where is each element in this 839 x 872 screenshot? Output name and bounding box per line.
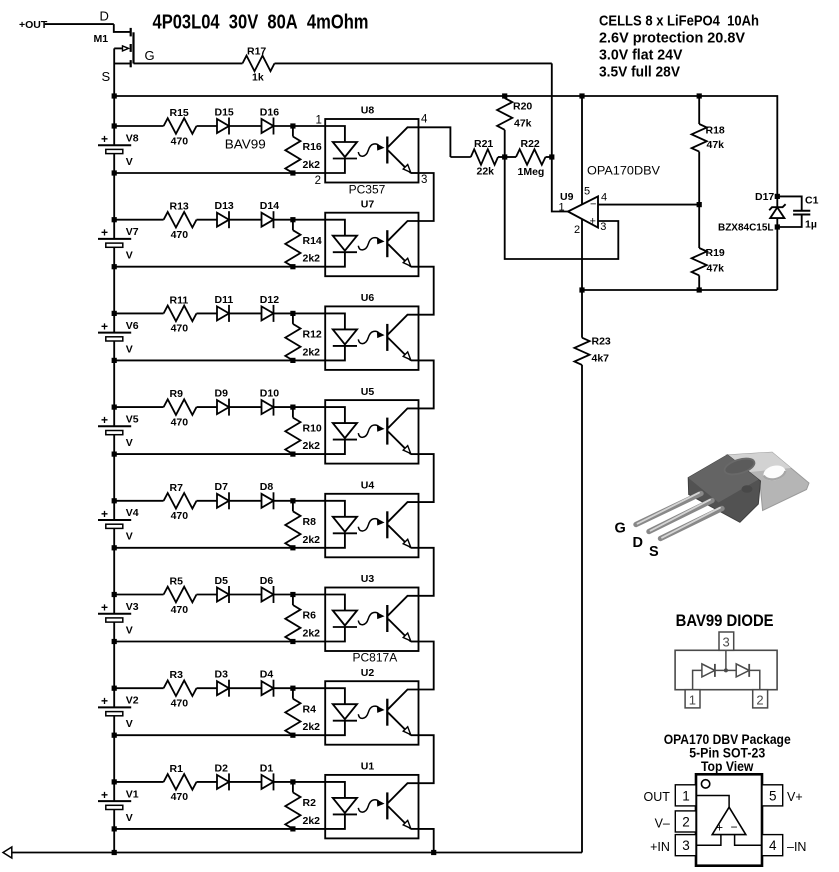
battery V1 — [98, 782, 139, 829]
resistor R6 2k2 — [285, 595, 320, 642]
svg-text:OUT: OUT — [644, 790, 671, 804]
diode D11 — [215, 294, 262, 322]
wire reference node — [582, 289, 777, 291]
junction R4 top — [290, 686, 295, 691]
svg-text:D3: D3 — [215, 669, 229, 681]
capacitor C1 1u — [777, 194, 818, 230]
svg-text:2k2: 2k2 — [303, 346, 321, 358]
svg-text:V: V — [126, 437, 133, 449]
wire M1 source to battery stack — [113, 64, 115, 127]
svg-text:D17: D17 — [755, 191, 774, 203]
svg-text:+: + — [101, 601, 108, 615]
svg-text:R22: R22 — [521, 138, 540, 150]
svg-text:−: − — [731, 820, 738, 834]
svg-text:OPA170DBV: OPA170DBV — [587, 163, 660, 177]
wire gate to U9 output node — [551, 63, 553, 157]
pin 1 OUT — [644, 785, 696, 806]
optocoupler U5 — [325, 386, 418, 464]
svg-text:D12: D12 — [260, 294, 279, 306]
resistor R11 470 — [114, 294, 217, 334]
optocoupler U7 — [325, 198, 418, 276]
battery V3 — [98, 595, 139, 642]
svg-text:+OUT: +OUT — [19, 19, 48, 31]
resistor R16 2k2 — [285, 126, 322, 173]
svg-text:R15: R15 — [170, 107, 189, 119]
battery V4 — [98, 501, 139, 548]
svg-text:R12: R12 — [303, 329, 322, 341]
svg-text:2: 2 — [315, 175, 321, 187]
diode D16 — [260, 106, 279, 134]
wire U8 collector to R21 — [419, 127, 451, 157]
svg-text:V2: V2 — [126, 695, 139, 707]
optocoupler U2 — [325, 667, 418, 745]
junction V1 + — [112, 779, 117, 784]
resistor R9 470 — [114, 388, 217, 428]
svg-text:+: + — [101, 788, 108, 802]
wire to U8 anode — [274, 125, 326, 127]
svg-text:U6: U6 — [361, 292, 375, 304]
wire V6 bottom — [114, 359, 325, 361]
svg-text:U2: U2 — [361, 667, 375, 679]
svg-text:D4: D4 — [260, 669, 274, 681]
resistor R13 470 — [114, 201, 217, 241]
op-amp package OPA170 body — [696, 774, 762, 865]
battery V6 — [98, 313, 139, 360]
resistor R23 4k7 — [574, 290, 611, 853]
svg-text:R10: R10 — [303, 422, 322, 434]
battery V2 — [98, 688, 139, 735]
svg-text:D10: D10 — [260, 388, 279, 400]
wire V+ rail — [114, 96, 777, 196]
pin 5 V+ — [762, 785, 803, 806]
svg-text:BAV99 DIODE: BAV99 DIODE — [676, 612, 774, 630]
svg-text:D14: D14 — [260, 200, 279, 212]
wire U9 pin2 V- — [581, 219, 583, 290]
svg-text:4: 4 — [769, 838, 777, 853]
svg-text:470: 470 — [171, 135, 189, 147]
junction V5 + — [112, 405, 117, 410]
svg-text:R1: R1 — [170, 763, 184, 775]
diode D15 — [215, 106, 262, 134]
svg-text:−: − — [590, 199, 596, 211]
svg-text:V: V — [126, 718, 133, 730]
svg-text:V1: V1 — [126, 788, 139, 800]
svg-text:C1: C1 — [805, 194, 819, 206]
resistor R4 2k2 — [285, 688, 320, 735]
svg-text:5: 5 — [769, 788, 777, 803]
junction pin2 R23 — [579, 287, 584, 292]
pin 1 BAV99 — [685, 690, 700, 708]
svg-text:R9: R9 — [170, 388, 184, 400]
junction pin5 rail — [579, 93, 584, 98]
wire battery stack — [113, 735, 115, 782]
resistor R1 470 — [114, 763, 217, 803]
svg-text:U4: U4 — [361, 480, 375, 492]
svg-text:2.6V protection 20.8V: 2.6V protection 20.8V — [599, 29, 745, 46]
diode D5 — [215, 575, 262, 603]
svg-text:+IN: +IN — [650, 840, 670, 854]
battery V8 — [98, 126, 139, 173]
svg-text:PC357: PC357 — [349, 182, 386, 196]
wire V8 bottom — [114, 172, 325, 174]
junction R10 top — [290, 405, 295, 410]
svg-text:R5: R5 — [170, 576, 184, 588]
svg-text:+: + — [101, 319, 108, 333]
wire U5 emitter to U4 collector — [419, 454, 434, 502]
svg-text:R4: R4 — [303, 703, 317, 715]
svg-text:V: V — [126, 624, 133, 636]
svg-text:R3: R3 — [170, 669, 184, 681]
svg-text:1µ: 1µ — [805, 218, 817, 230]
diode D9 — [215, 388, 262, 416]
wire V7 bottom — [114, 266, 325, 268]
svg-text:–IN: –IN — [787, 840, 806, 854]
svg-text:BAV99: BAV99 — [225, 137, 266, 151]
pin 2 V- — [655, 811, 696, 832]
junction V7 + — [112, 217, 117, 222]
junction R22 gate node — [549, 154, 554, 159]
junction V1 - — [112, 826, 117, 831]
diode D12 — [260, 294, 279, 322]
diode D3 — [215, 669, 262, 697]
svg-text:V–: V– — [655, 816, 670, 830]
svg-text:47k: 47k — [707, 139, 725, 151]
resistor R21 22k — [450, 138, 504, 178]
wire to U3 anode — [274, 594, 326, 596]
resistor R15 470 — [114, 107, 217, 147]
junction R18 R19 -IN node — [697, 202, 702, 207]
svg-text:R21: R21 — [474, 138, 493, 150]
svg-text:2: 2 — [574, 224, 580, 236]
svg-text:D: D — [633, 535, 643, 551]
resistor R17 — [134, 46, 552, 84]
junction D17 top — [775, 194, 780, 199]
svg-text:3: 3 — [682, 838, 690, 853]
svg-text:G: G — [615, 521, 626, 537]
wire V5 bottom — [114, 453, 325, 455]
svg-text:4k7: 4k7 — [592, 352, 610, 364]
resistor R20 47k — [497, 96, 532, 157]
svg-text:470: 470 — [171, 604, 189, 616]
svg-text:D13: D13 — [215, 200, 234, 212]
junction V4 - — [112, 545, 117, 550]
optocoupler U4 — [325, 480, 418, 558]
wire battery stack — [113, 267, 115, 314]
wire V2 bottom — [114, 734, 325, 736]
junction R12 bottom — [290, 358, 295, 363]
svg-text:D7: D7 — [215, 481, 229, 493]
wire U9 pin4 -IN — [598, 204, 699, 206]
zener D17 BZX84C15L — [718, 191, 786, 290]
resistor R19 47k — [692, 205, 725, 290]
diode D7 — [215, 481, 262, 509]
svg-text:+: + — [101, 226, 108, 240]
svg-text:470: 470 — [171, 229, 189, 241]
svg-text:D2: D2 — [215, 762, 229, 774]
svg-text:2k2: 2k2 — [303, 815, 321, 827]
svg-text:1k: 1k — [252, 71, 264, 83]
svg-text:D6: D6 — [260, 575, 274, 587]
junction V2 - — [112, 733, 117, 738]
junction R16 top — [290, 123, 295, 128]
junction R2 top — [290, 779, 295, 784]
svg-text:R20: R20 — [513, 100, 532, 112]
label cells info — [599, 12, 759, 80]
svg-text:V: V — [126, 250, 133, 262]
wire battery stack — [113, 642, 115, 689]
wire U8 emitter to U7 collector — [419, 173, 434, 221]
svg-text:M1: M1 — [94, 33, 109, 45]
junction V4 + — [112, 498, 117, 503]
svg-text:470: 470 — [171, 698, 189, 710]
svg-text:V: V — [126, 812, 133, 824]
junction V2 + — [112, 686, 117, 691]
svg-text:R13: R13 — [170, 201, 189, 213]
junction chain to 0V — [431, 850, 436, 855]
svg-text:V+: V+ — [787, 790, 803, 804]
label OPA170 package title — [664, 732, 791, 774]
svg-text:2k2: 2k2 — [303, 721, 321, 733]
wire -IN to op-amp — [735, 835, 762, 846]
svg-text:R23: R23 — [592, 335, 611, 347]
svg-text:3: 3 — [600, 221, 606, 233]
resistor R3 470 — [114, 669, 217, 709]
junction R8 bottom — [290, 545, 295, 550]
svg-text:V: V — [126, 156, 133, 168]
svg-text:R11: R11 — [170, 294, 189, 306]
svg-text:2: 2 — [756, 692, 763, 707]
svg-text:D9: D9 — [215, 388, 229, 400]
wire 0V rail — [12, 852, 583, 854]
svg-text:U1: U1 — [361, 761, 375, 773]
svg-text:D1: D1 — [260, 762, 274, 774]
svg-text:+: + — [101, 694, 108, 708]
wire U2 emitter to U1 collector — [419, 735, 434, 783]
svg-text:1: 1 — [689, 692, 696, 707]
svg-text:D: D — [100, 9, 109, 24]
junction R6 top — [290, 592, 295, 597]
battery V7 — [98, 220, 139, 267]
svg-text:3: 3 — [723, 635, 730, 650]
pin 3 +IN — [650, 835, 696, 856]
svg-text:V8: V8 — [126, 132, 139, 144]
wire to U5 anode — [274, 406, 326, 408]
diode D2 — [215, 762, 262, 790]
svg-text:V3: V3 — [126, 601, 139, 613]
resistor R10 2k2 — [285, 407, 322, 454]
wire to U4 anode — [274, 500, 326, 502]
svg-text:2k2: 2k2 — [303, 628, 321, 640]
junction R2 bottom — [290, 826, 295, 831]
junction S rail — [112, 93, 117, 98]
optocoupler U1 — [325, 761, 418, 839]
diode BAV99 internal A — [693, 664, 726, 690]
wire U9 pin3 +IN feedback — [505, 157, 619, 259]
svg-text:U8: U8 — [361, 105, 375, 117]
junction R18 rail — [697, 93, 702, 98]
junction R20 R21 R22 node — [502, 154, 507, 159]
wire U9 pin5 V+ — [581, 96, 583, 205]
svg-text:1: 1 — [316, 115, 322, 127]
svg-text:2k2: 2k2 — [303, 440, 321, 452]
wire U3 emitter to U2 collector — [419, 642, 434, 690]
diode D6 — [260, 575, 274, 603]
svg-text:D16: D16 — [260, 106, 279, 118]
svg-text:V: V — [126, 531, 133, 543]
wire to U7 anode — [274, 219, 326, 221]
wire to U1 anode — [274, 781, 326, 783]
junction V3 + — [112, 592, 117, 597]
svg-text:47k: 47k — [514, 117, 532, 129]
svg-text:U7: U7 — [361, 198, 375, 210]
svg-text:V: V — [126, 343, 133, 355]
svg-text:D8: D8 — [260, 481, 274, 493]
svg-text:470: 470 — [171, 791, 189, 803]
arrow 0V out — [3, 847, 12, 858]
svg-text:D11: D11 — [215, 294, 234, 306]
junction V7 - — [112, 264, 117, 269]
svg-text:R8: R8 — [303, 516, 317, 528]
svg-text:U5: U5 — [361, 386, 375, 398]
pin 2 BAV99 — [753, 690, 768, 708]
pin 3 BAV99 — [719, 632, 734, 650]
junction R14 bottom — [290, 264, 295, 269]
resistor R22 1Meg — [505, 138, 552, 178]
svg-text:2k2: 2k2 — [303, 534, 321, 546]
resistor R12 2k2 — [285, 313, 322, 360]
diode BAV99 internal B — [726, 664, 760, 690]
junction V6 - — [112, 358, 117, 363]
svg-text:V6: V6 — [126, 320, 139, 332]
wire V3 bottom — [114, 641, 325, 643]
svg-text:1: 1 — [682, 788, 690, 803]
svg-text:R16: R16 — [303, 141, 322, 153]
wire V4 bottom — [114, 547, 325, 549]
svg-text:R2: R2 — [303, 797, 317, 809]
resistor R8 2k2 — [285, 501, 320, 548]
svg-text:22k: 22k — [477, 166, 495, 178]
svg-text:4P03L04 30V 80A 4mOhm: 4P03L04 30V 80A 4mOhm — [153, 12, 369, 34]
diode D14 — [260, 200, 279, 228]
svg-text:R19: R19 — [706, 247, 725, 259]
diode D8 — [260, 481, 274, 509]
junction R20 rail — [502, 93, 507, 98]
pin 1 marker circle — [701, 780, 709, 788]
optocoupler U6 — [325, 292, 418, 370]
svg-text:3.0V flat 24V: 3.0V flat 24V — [599, 47, 683, 64]
junction battery stack 0V — [112, 850, 117, 855]
junction R4 bottom — [290, 733, 295, 738]
svg-text:PC817A: PC817A — [353, 651, 398, 665]
svg-text:+: + — [716, 821, 723, 835]
svg-text:+: + — [590, 216, 596, 228]
svg-text:Top View: Top View — [701, 759, 754, 774]
resistor R5 470 — [114, 576, 217, 616]
junction V6 + — [112, 311, 117, 316]
wire OUT to op-amp — [696, 796, 729, 808]
svg-text:CELLS 8 x LiFePO4 10Ah: CELLS 8 x LiFePO4 10Ah — [599, 12, 759, 29]
svg-text:R18: R18 — [706, 125, 725, 137]
diode package BAV99 body — [675, 650, 777, 689]
svg-text:V4: V4 — [126, 507, 139, 519]
junction V8 - — [112, 170, 117, 175]
wire +IN to op-amp — [696, 835, 721, 846]
junction R12 top — [290, 311, 295, 316]
wire U9 output — [552, 157, 568, 212]
svg-text:G: G — [145, 48, 155, 63]
optocoupler U3 — [325, 573, 418, 664]
svg-text:BZX84C15L: BZX84C15L — [718, 222, 774, 234]
wire to U2 anode — [274, 687, 326, 689]
wire battery stack — [113, 548, 115, 595]
svg-text:2k2: 2k2 — [303, 159, 321, 171]
junction R10 bottom — [290, 452, 295, 457]
svg-text:R7: R7 — [170, 482, 184, 494]
svg-text:2k2: 2k2 — [303, 253, 321, 265]
wire +OUT to M1 drain — [45, 23, 114, 25]
junction R19 bottom — [697, 287, 702, 292]
optocoupler U8 — [315, 105, 428, 197]
svg-text:+: + — [101, 132, 108, 146]
svg-text:U3: U3 — [361, 573, 375, 585]
wire U1 emitter to 0V rail — [419, 829, 434, 853]
resistor R14 2k2 — [285, 220, 322, 267]
svg-text:470: 470 — [171, 416, 189, 428]
pin 4 -IN — [762, 835, 806, 856]
op-amp symbol OPA170 — [712, 807, 746, 835]
resistor R18 47k — [692, 96, 725, 205]
diode D10 — [260, 388, 279, 416]
svg-text:2: 2 — [682, 814, 690, 829]
junction R14 top — [290, 217, 295, 222]
junction R6 bottom — [290, 639, 295, 644]
transistor package TO-220 photo — [615, 452, 810, 560]
transistor M1 4P03L04 PMOS — [94, 9, 155, 84]
junction V3 - — [112, 639, 117, 644]
svg-text:V7: V7 — [126, 226, 139, 238]
wire battery stack — [113, 360, 115, 407]
wire V1 bottom — [114, 828, 325, 830]
svg-text:R6: R6 — [303, 610, 317, 622]
svg-text:+: + — [101, 507, 108, 521]
wire battery stack — [113, 454, 115, 501]
diode D1 — [260, 762, 274, 790]
junction V8 + — [112, 123, 117, 128]
junction V5 - — [112, 452, 117, 457]
svg-text:470: 470 — [171, 323, 189, 335]
junction D17 bottom — [775, 224, 780, 229]
svg-text:R14: R14 — [303, 235, 322, 247]
resistor R2 2k2 — [285, 782, 320, 829]
svg-text:D15: D15 — [215, 106, 234, 118]
op-amp U9 OPA170DBV — [559, 185, 608, 236]
node BAV99 common cathode — [724, 668, 728, 672]
wire battery stack — [113, 173, 115, 220]
wire U7 emitter to U6 collector — [419, 267, 434, 315]
wire U4 emitter to U3 collector — [419, 548, 434, 596]
wire battery stack to 0V rail — [113, 829, 115, 853]
svg-text:+: + — [101, 413, 108, 427]
svg-text:4: 4 — [601, 191, 607, 203]
battery V5 — [98, 407, 139, 454]
resistor R7 470 — [114, 482, 217, 522]
diode D13 — [215, 200, 262, 228]
svg-text:D5: D5 — [215, 575, 229, 587]
svg-text:47k: 47k — [707, 262, 725, 274]
svg-text:5: 5 — [584, 185, 590, 197]
diode D4 — [260, 669, 274, 697]
svg-text:470: 470 — [171, 510, 189, 522]
